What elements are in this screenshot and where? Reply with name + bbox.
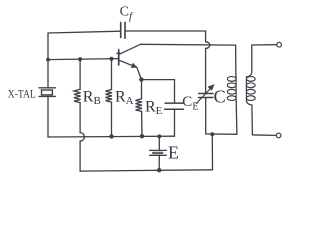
node emitter junction [139, 77, 143, 81]
node tank drop junction [210, 132, 214, 136]
node RA top junction [109, 57, 113, 61]
wire RA bottom lead [111, 102, 113, 136]
wire RB top lead [79, 59, 81, 89]
wire tank bottom to rail B [211, 134, 213, 170]
battery E top lead [158, 136, 160, 150]
node battery bottom junction [157, 168, 161, 172]
transistor Q1 collector [119, 44, 140, 54]
wire top rail left (node base-top to Cf) [48, 31, 121, 33]
transformer T1 secondary winding [246, 77, 255, 101]
wire crystal bottom to rail A [47, 96, 49, 137]
wire RB bottom lead [79, 103, 81, 133]
wire emitter node to RE [141, 80, 143, 99]
transistor Q1 emitter [119, 60, 141, 79]
battery E bottom lead [158, 155, 160, 170]
svg-text:Cf: Cf [120, 5, 134, 23]
wire top rail right (Cf to tank) [125, 30, 206, 32]
svg-text:X-TAL: X-TAL [8, 86, 36, 100]
svg-text:E: E [168, 143, 179, 163]
wire drop to capacitor C [205, 48, 207, 93]
resistor RE [136, 99, 143, 112]
wire RB lead to rail B [79, 141, 81, 171]
svg-text:C: C [214, 86, 226, 106]
wire emitter node to CE [141, 80, 174, 104]
wire base rail [48, 59, 118, 60]
wire top-rail drop to tank, upper part [205, 31, 207, 42]
wire rail B (battery negative rail) [80, 170, 212, 171]
wire collector rail [141, 43, 236, 46]
battery E plates [150, 150, 167, 155]
transformer T1 primary top lead [235, 45, 237, 76]
wire RE bottom lead [141, 111, 143, 136]
terminal top output [277, 42, 282, 47]
node base-left junction [46, 58, 50, 62]
transistor Q1 base bar [118, 51, 120, 66]
resistor RB [74, 89, 81, 102]
transformer T1 secondary bottom lead [246, 100, 252, 135]
wire tank bottom rail [206, 133, 237, 135]
wire hop over rail A [80, 133, 84, 142]
wire RA top lead [111, 59, 113, 90]
crystal X-TAL [39, 88, 55, 97]
variable capacitor C arrow [196, 85, 214, 104]
wire secondary bottom to terminal [252, 134, 276, 137]
wire hop over collector rail [206, 42, 210, 49]
svg-text:CE: CE [182, 94, 198, 113]
node RE bottom junction [140, 134, 144, 138]
svg-text:RB: RB [83, 89, 101, 108]
wire CE bottom lead [174, 109, 176, 136]
capacitor CE [165, 103, 184, 109]
node RB top junction [78, 57, 82, 61]
node RA bottom junction [109, 134, 113, 138]
transistor Q1 base bar arrow tip [117, 49, 121, 54]
wire rail A (bottom node) [48, 135, 175, 138]
node battery top junction [157, 134, 161, 138]
svg-text:RE: RE [145, 98, 163, 117]
wire left rail [47, 33, 49, 88]
transformer T1 primary bottom lead [235, 101, 238, 135]
transformer T1 primary winding [227, 77, 236, 101]
wire C bottom lead [205, 98, 207, 134]
transistor Q1 emitter arrowhead [131, 63, 137, 67]
transformer T1 secondary top lead [247, 45, 252, 77]
variable capacitor C plates [199, 94, 213, 98]
resistor RA [106, 90, 113, 103]
capacitor C_f [121, 22, 125, 38]
wire secondary top to terminal [252, 44, 277, 46]
svg-text:RA: RA [115, 89, 134, 108]
terminal bottom output [276, 133, 281, 138]
